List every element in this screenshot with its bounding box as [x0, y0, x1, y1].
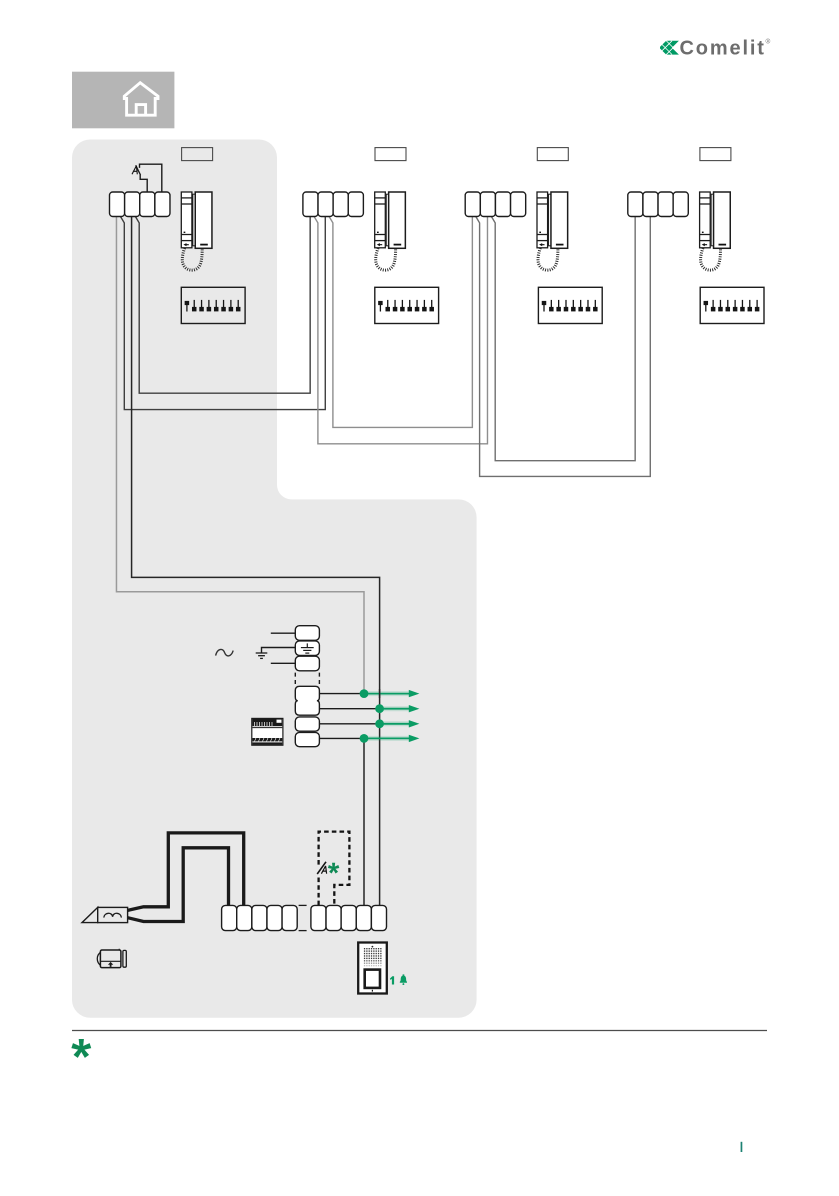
svg-text:Comelit: Comelit	[680, 37, 766, 59]
svg-text:®: ®	[766, 38, 771, 46]
